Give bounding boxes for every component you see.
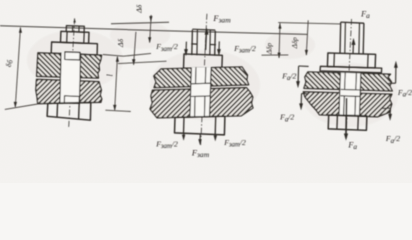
svg-text:Fa: Fa — [360, 9, 370, 19]
svg-text:Fзат: Fзат — [191, 148, 210, 158]
svg-text:δб: δб — [4, 59, 14, 67]
svg-text:Δδр: Δδр — [291, 37, 299, 50]
svg-text:Δδ: Δδ — [134, 4, 143, 13]
svg-text:Δδр: Δδр — [265, 43, 273, 56]
svg-text:Fзат: Fзат — [212, 14, 231, 24]
svg-text:Fa: Fa — [347, 140, 357, 150]
svg-text:Δδ: Δδ — [116, 39, 125, 48]
